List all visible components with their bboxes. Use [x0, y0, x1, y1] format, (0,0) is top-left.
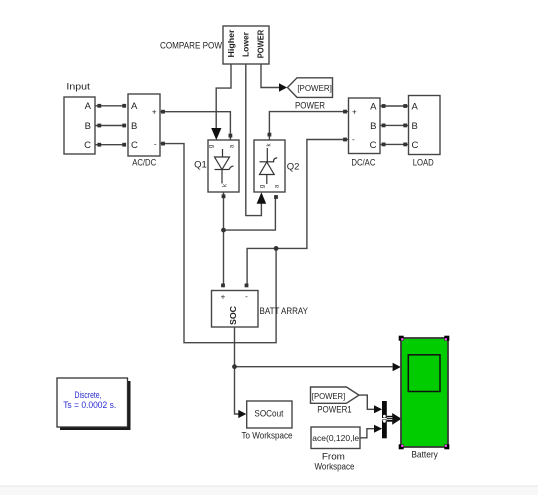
svg-text:+: + [352, 107, 357, 116]
svg-text:SOCout: SOCout [254, 408, 283, 419]
svg-text:POWER: POWER [295, 101, 325, 112]
svg-text:Input: Input [66, 82, 90, 93]
svg-text:A: A [85, 101, 92, 112]
svg-text:B: B [370, 121, 376, 132]
svg-text:C: C [412, 140, 419, 151]
svg-text:-: - [154, 139, 157, 148]
svg-text:g: g [260, 185, 266, 188]
svg-text:LOAD: LOAD [413, 158, 434, 169]
svg-text:To Workspace: To Workspace [242, 431, 293, 442]
svg-text:Lower: Lower [241, 32, 250, 57]
svg-text:+: + [221, 293, 226, 302]
svg-text:COMPARE POW: COMPARE POW [160, 41, 222, 52]
svg-text:A: A [412, 101, 419, 112]
svg-text:C: C [84, 140, 91, 151]
svg-text:C: C [370, 140, 377, 151]
svg-text:C: C [131, 140, 138, 151]
svg-text:Battery: Battery [411, 449, 438, 460]
svg-text:B: B [131, 121, 137, 132]
svg-text:Ts = 0.0002 s.: Ts = 0.0002 s. [63, 400, 116, 410]
svg-text:-: - [245, 292, 248, 301]
svg-text:Workspace: Workspace [315, 462, 355, 473]
svg-text:g: g [209, 145, 215, 148]
svg-text:A: A [131, 101, 138, 112]
svg-text:Discrete,: Discrete, [75, 390, 102, 400]
svg-text:[POWER]: [POWER] [297, 83, 332, 93]
svg-text:Q1: Q1 [194, 160, 207, 171]
svg-text:POWER: POWER [257, 30, 266, 59]
svg-text:+: + [152, 107, 157, 116]
svg-text:-: - [352, 135, 355, 144]
svg-text:DC/AC: DC/AC [351, 158, 375, 169]
svg-text:SOC: SOC [229, 306, 238, 325]
svg-text:POWER1: POWER1 [317, 405, 352, 416]
svg-text:B: B [412, 121, 418, 132]
svg-text:A: A [370, 101, 377, 112]
svg-text:Q2: Q2 [287, 162, 300, 173]
svg-text:AC/DC: AC/DC [132, 158, 156, 169]
svg-text:B: B [85, 121, 91, 132]
svg-text:Higher: Higher [227, 30, 236, 58]
svg-text:BATT ARRAY: BATT ARRAY [260, 306, 309, 317]
svg-text:ace(0,120,len: ace(0,120,len [312, 433, 364, 443]
svg-text:[POWER]: [POWER] [312, 391, 346, 401]
